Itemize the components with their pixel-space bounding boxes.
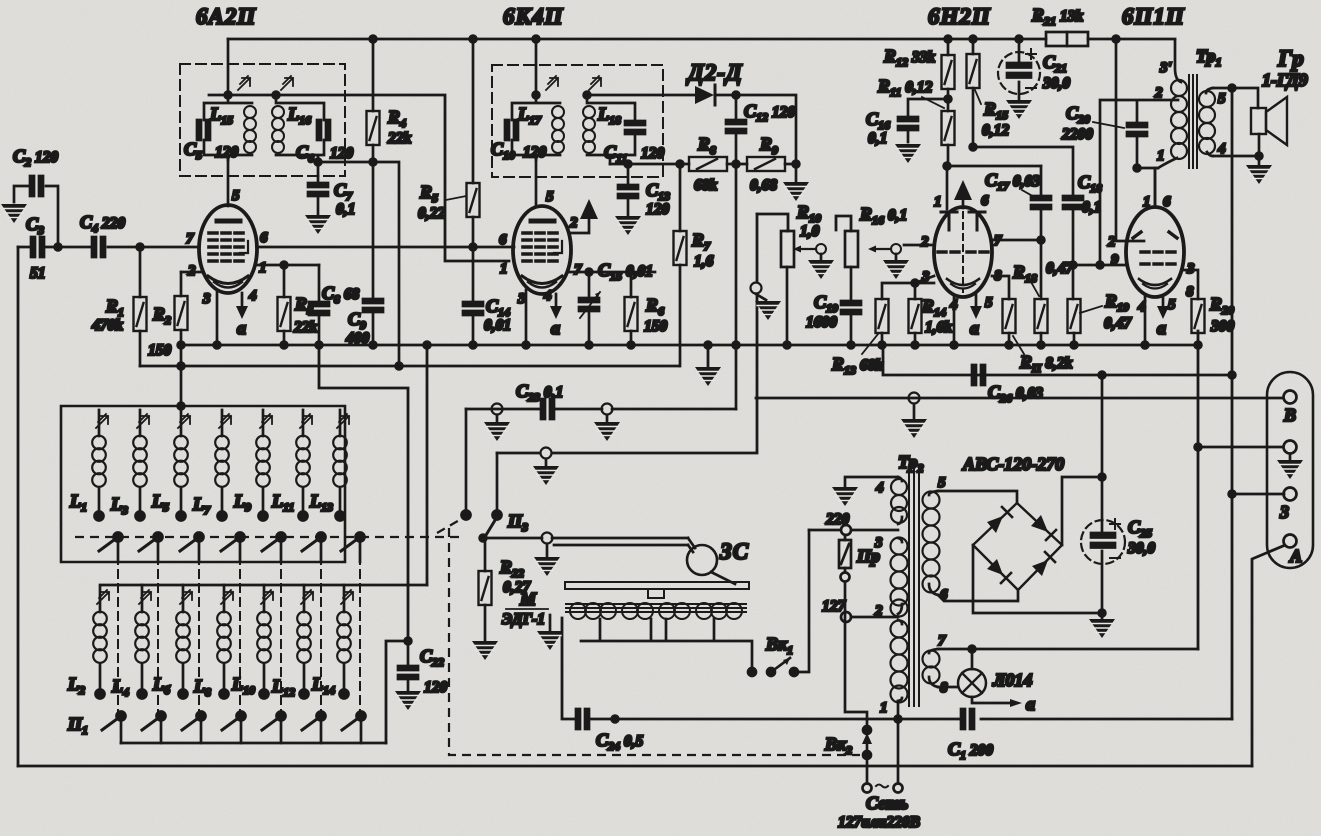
band switch P2 contact stubs <box>118 537 360 562</box>
svg-text:0,1: 0,1 <box>1082 199 1101 216</box>
power transformer Tr2 core <box>909 468 919 706</box>
chassis contact on pickup line <box>542 533 553 544</box>
ground below C25 <box>1099 610 1106 617</box>
svg-text:5: 5 <box>938 475 946 491</box>
capacitor C9 on R4 branch <box>372 162 375 345</box>
wire R16 top hook <box>836 216 851 231</box>
wire ground terminal line y447 <box>1198 446 1283 449</box>
coil L17 tank loop with C10 <box>512 95 560 160</box>
wire pin2 grid to wiper <box>904 244 934 247</box>
svg-text:ЗС: ЗС <box>719 539 749 564</box>
wire right tall vertical from Tr1 secondary <box>1231 86 1234 719</box>
wire R4 bottom line y162 <box>318 162 399 366</box>
svg-text:8: 8 <box>1186 284 1194 300</box>
capacitor C15 trimmer <box>588 272 591 345</box>
wire left grid line y247 <box>18 246 514 249</box>
wire AGC line y366 <box>140 365 679 368</box>
wire L17 to pin5 <box>535 155 538 206</box>
wire tube pin3 to bus <box>216 290 219 345</box>
svg-text:Гр: Гр <box>1277 46 1305 71</box>
svg-text:1600: 1600 <box>806 314 837 331</box>
capacitor C18 <box>1063 196 1083 209</box>
ground at R9 right <box>795 164 798 181</box>
wire heater line 7 <box>938 648 1198 651</box>
resistor R5 <box>472 39 475 247</box>
node166 line to C17 <box>947 165 1041 168</box>
resistor R17 <box>1003 299 1016 333</box>
svg-text:120: 120 <box>641 145 665 162</box>
detector line y164 <box>610 163 796 166</box>
svg-text:120: 120 <box>330 145 354 162</box>
tuning slugs above L17 L18 <box>546 76 558 90</box>
svg-text:150: 150 <box>148 342 172 359</box>
svg-text:3: 3 <box>202 291 211 307</box>
contact with ground on pickup selector line <box>541 448 552 459</box>
fuse Pr <box>844 536 847 572</box>
resistor R6 <box>630 272 633 345</box>
svg-text:а: а <box>1026 694 1035 714</box>
svg-text:R12 33k: R12 33k <box>883 46 935 69</box>
resistor R20 <box>1192 299 1205 333</box>
terminal A <box>1284 535 1297 548</box>
svg-text:6: 6 <box>499 232 507 248</box>
pilot lamp L014 <box>938 686 958 689</box>
upper coil L3 <box>110 410 149 521</box>
capacitor C3 <box>31 237 44 257</box>
heater net arrow a <box>972 697 1010 703</box>
diode D2-D <box>587 94 736 97</box>
upper coil L5 <box>151 410 190 521</box>
wire 127 tap <box>852 616 898 619</box>
wire pin3 to R20 <box>1184 270 1198 299</box>
capacitor C14 <box>472 247 475 345</box>
ground below C2 <box>1 204 27 223</box>
svg-text:150: 150 <box>644 318 668 335</box>
svg-text:6А2П: 6А2П <box>196 4 256 29</box>
resistor R14 <box>909 299 922 333</box>
svg-text:1: 1 <box>934 194 942 210</box>
wire band-switch gang dashed bus <box>75 536 462 538</box>
svg-text:а: а <box>970 318 979 338</box>
wire R15 line y147 to C18 <box>973 147 1073 197</box>
svg-text:127или220В: 127или220В <box>838 814 920 831</box>
node P3 arm to R22 and pickup line <box>483 537 688 540</box>
second pickup wire <box>554 544 688 547</box>
svg-text:1,0: 1,0 <box>800 223 820 240</box>
ground below C21 <box>1006 100 1032 119</box>
wire pin3 to R13 R14 <box>882 276 934 299</box>
resistor R1 <box>139 247 142 366</box>
wire pin6 to bridge bottom <box>938 590 1018 601</box>
capacitor C19 <box>841 301 861 314</box>
svg-text:6К4П: 6К4П <box>503 4 564 29</box>
ground below R22 <box>472 641 498 660</box>
wire mains line y719 <box>562 618 1232 719</box>
electrolytic C25 <box>1101 375 1104 613</box>
svg-text:7: 7 <box>938 633 946 649</box>
svg-text:3: 3 <box>1279 502 1289 522</box>
capacitor C20 <box>1100 100 1178 265</box>
svg-text:68k: 68k <box>694 177 718 194</box>
wire tube pin1 line <box>255 265 319 297</box>
wire pin4 to ground <box>845 477 898 486</box>
wire oscillator top line y95 <box>209 95 509 261</box>
wire pin3 to bus <box>525 290 528 345</box>
svg-text:ЭДГ-1: ЭДГ-1 <box>502 611 545 628</box>
oscillator dashed box <box>180 64 345 176</box>
resistor R8 <box>689 157 727 171</box>
wire top B+ bus <box>228 38 1175 41</box>
svg-text:R16 0,1: R16 0,1 <box>859 204 907 227</box>
svg-text:3': 3' <box>1159 60 1172 76</box>
lower coil L14 <box>311 585 353 699</box>
wire y388 link <box>319 345 408 641</box>
wire gang dashed link to P3 and Vk2 <box>449 528 860 755</box>
svg-text:30,0: 30,0 <box>1127 540 1155 557</box>
svg-text:0,22: 0,22 <box>418 205 445 222</box>
node junction dots right vertical <box>1229 372 1236 379</box>
svg-text:0,47: 0,47 <box>1104 315 1132 332</box>
wire pin5 to bridge top <box>938 491 1017 503</box>
svg-text:RП 8,2k: RП 8,2k <box>1019 352 1073 375</box>
svg-text:1: 1 <box>1143 194 1151 210</box>
wire C23 line <box>466 408 736 411</box>
wire right outer vertical to terminal A <box>1252 546 1283 766</box>
heater arrow a of 6A2P <box>241 293 244 306</box>
svg-text:300: 300 <box>1210 318 1235 335</box>
svg-text:4: 4 <box>543 288 552 304</box>
wire P1 bus <box>121 742 386 745</box>
wire from bus to L15 <box>227 39 230 95</box>
wire pin2 with supply arrow <box>571 219 589 233</box>
supply arrow at pin6 <box>962 200 965 208</box>
contact with ground on C23 line right <box>602 404 613 415</box>
wire pin8 to R17 <box>992 276 1009 299</box>
svg-text:а: а <box>237 318 246 338</box>
svg-text:C15 0,01: C15 0,01 <box>598 260 653 283</box>
terminal 3 <box>1284 488 1297 501</box>
wire gang dashed diagonal <box>437 518 463 533</box>
svg-text:220: 220 <box>825 511 850 528</box>
wire pin9 line <box>1073 264 1127 267</box>
svg-text:4: 4 <box>1217 141 1226 157</box>
coil box frame <box>61 406 345 562</box>
loudspeaker Gr 1-GD9 <box>1251 108 1266 134</box>
resistor R21 on bus <box>1046 32 1088 46</box>
resistor R18 <box>1040 240 1043 299</box>
svg-text:C8 68: C8 68 <box>322 283 360 306</box>
lower coil L6 <box>152 585 192 699</box>
resistor R2 <box>180 272 183 406</box>
wire pin4 to bus <box>953 296 956 345</box>
resistor R12 <box>947 39 950 55</box>
Tr1 primary <box>1175 40 1181 82</box>
wire C26 feedback line y375 <box>883 345 1232 375</box>
bridge diodes <box>987 515 1048 576</box>
ground below C13 <box>615 216 641 235</box>
turntable platter <box>565 582 749 589</box>
resistor R13 <box>876 299 889 333</box>
upper coil L7 <box>192 410 231 521</box>
heater arrow a of 6K4P <box>555 294 558 306</box>
svg-text:5: 5 <box>232 188 240 204</box>
lower coil L12 <box>271 585 313 699</box>
svg-text:АВС-120-270: АВС-120-270 <box>962 454 1064 474</box>
wire R20 lower vertical <box>1197 331 1200 649</box>
upper coil L11 <box>271 410 312 521</box>
resistor R19 <box>1068 299 1081 333</box>
switch Vk2 <box>863 726 871 734</box>
wire tube pin2 to R2 <box>181 271 201 274</box>
heater arrow a of 6P1P <box>1162 296 1165 306</box>
ground below C7 <box>305 215 331 234</box>
terminal ground <box>1284 441 1297 454</box>
wire volume feed y214 <box>757 214 788 231</box>
svg-text:1: 1 <box>259 260 267 276</box>
svg-text:В: В <box>1283 405 1296 425</box>
wire main cathode bus <box>181 344 1198 347</box>
resistor R22 <box>484 538 487 640</box>
potentiometer R10 <box>786 230 789 233</box>
upper coil L1 <box>69 410 108 521</box>
svg-text:7: 7 <box>574 262 582 278</box>
svg-text:400: 400 <box>345 330 370 347</box>
svg-text:5: 5 <box>1218 91 1226 107</box>
svg-text:C12 120: C12 120 <box>744 101 795 124</box>
svg-text:5: 5 <box>1168 297 1176 313</box>
svg-text:Сеть: Сеть <box>866 793 908 813</box>
svg-text:1,6k: 1,6k <box>925 319 952 336</box>
lower coil bus <box>102 584 427 587</box>
upper coil L13 <box>309 410 349 521</box>
svg-text:1: 1 <box>880 700 888 716</box>
svg-text:6: 6 <box>1163 194 1171 210</box>
svg-text:127: 127 <box>822 598 847 615</box>
lower coil L8 <box>193 585 233 699</box>
tube 6P1P <box>1126 207 1184 297</box>
wire pin1 to node166 <box>946 166 949 209</box>
wire tube pin5 <box>227 155 230 206</box>
wire pin2 screen from bus <box>1116 39 1144 241</box>
lower coil L4 <box>111 585 151 699</box>
svg-text:6: 6 <box>981 193 989 209</box>
svg-text:120: 120 <box>215 144 239 161</box>
svg-text:Пр: Пр <box>856 546 880 566</box>
svg-text:C17 0,03: C17 0,03 <box>985 170 1040 193</box>
svg-text:9: 9 <box>1111 252 1119 268</box>
terminal V <box>1284 391 1297 404</box>
svg-text:R21 13k: R21 13k <box>1031 5 1083 28</box>
lower coil L10 <box>231 585 273 699</box>
svg-text:Д2-Д: Д2-Д <box>686 60 743 85</box>
svg-text:470k: 470k <box>91 317 123 334</box>
chassis contact on x756 riser <box>751 283 762 294</box>
svg-text:6: 6 <box>260 230 268 246</box>
svg-text:C26 0,03: C26 0,03 <box>988 382 1043 405</box>
resistor R3 <box>283 331 286 345</box>
capacitor C26 on feedback line <box>972 365 985 385</box>
capacitor C2 <box>14 186 58 247</box>
svg-text:120: 120 <box>646 201 670 218</box>
pickup ZS <box>687 545 717 575</box>
svg-text:6П1П: 6П1П <box>1122 4 1185 29</box>
capacitor C22 <box>407 641 410 690</box>
wire bridge plus to C25 <box>1062 477 1102 545</box>
electrolytic C21 <box>998 52 1040 94</box>
capacitor C7 <box>317 176 320 214</box>
capacitor C8 <box>318 265 321 345</box>
capacitor C12 <box>735 95 738 409</box>
svg-text:R13 68k: R13 68k <box>831 354 883 377</box>
svg-text:C2 120: C2 120 <box>13 146 58 169</box>
resistor R4 <box>372 39 375 162</box>
wire from bus down to L17 <box>535 39 538 95</box>
svg-text:0,12: 0,12 <box>982 122 1009 139</box>
svg-text:0,68: 0,68 <box>750 177 777 194</box>
wire B terminal line y398 <box>756 397 1283 400</box>
terminal strip outline <box>1267 372 1313 568</box>
switch Vk1 <box>748 668 756 676</box>
wire P3 contact risers <box>466 409 497 515</box>
capacitor C23 <box>541 399 554 419</box>
wire pin1 plate from Tr1 <box>1154 168 1157 207</box>
wire pin7 to C17 <box>992 239 1041 242</box>
svg-text:51: 51 <box>30 265 46 282</box>
svg-text:C1 200: C1 200 <box>948 739 993 762</box>
coil L16 tank loop with C6 <box>276 95 324 176</box>
wire diode to corner down <box>736 95 796 164</box>
Tr2 heater winding 7-8 <box>929 649 938 653</box>
svg-text:5: 5 <box>985 295 993 311</box>
svg-text:4: 4 <box>875 480 884 496</box>
capacitor C4 <box>92 237 105 257</box>
svg-text:0,1: 0,1 <box>868 130 887 147</box>
motor taps to Vk1 <box>581 619 752 672</box>
svg-text:1: 1 <box>1157 148 1165 164</box>
Tr2 secondary HV 5-6 <box>929 491 938 495</box>
ground at motor left <box>549 615 552 630</box>
heater arrow a of 6N2P <box>975 295 978 306</box>
tube 6N2P double triode <box>934 207 992 297</box>
resistor R15 <box>972 39 975 54</box>
svg-text:R11 0,12: R11 0,12 <box>877 76 933 99</box>
wire pin7 cathode line <box>569 271 655 274</box>
wire y641 to P1 bus riser <box>386 641 408 743</box>
svg-text:4: 4 <box>248 288 257 304</box>
svg-text:2200: 2200 <box>1061 126 1093 143</box>
svg-text:Л014: Л014 <box>992 670 1032 690</box>
svg-text:2: 2 <box>1154 85 1163 101</box>
contact with ground on C23 line left <box>492 404 503 415</box>
wire terminal 3 link <box>1232 493 1284 496</box>
svg-text:а: а <box>551 318 560 338</box>
svg-text:2: 2 <box>920 234 929 250</box>
lower coil L2 <box>67 585 109 699</box>
Tr2 winding 2-1 <box>898 620 902 624</box>
mains plug <box>863 784 872 793</box>
resistor R7 <box>679 164 682 366</box>
svg-text:C23 0,1: C23 0,1 <box>516 381 563 404</box>
svg-text:А: А <box>1289 546 1302 566</box>
svg-text:0,01: 0,01 <box>484 317 511 334</box>
coil L15 tank loop with C5 <box>204 95 252 160</box>
resistor R11 <box>942 111 955 145</box>
tuning slugs above L15 L16 <box>238 76 250 90</box>
tube 6A2P <box>199 205 257 293</box>
wire 220 tap <box>809 529 898 532</box>
IF transformer dashed box <box>492 65 663 177</box>
wire bridge minus to ground node <box>973 545 1102 613</box>
ground below C22 <box>395 691 421 710</box>
resistor R9 <box>747 157 785 171</box>
Tr2 winding 3-2 <box>898 538 902 542</box>
potentiometer R16 <box>845 231 858 267</box>
upper coil L9 <box>233 410 272 521</box>
wire outer bottom <box>18 765 1252 768</box>
svg-text:1,6: 1,6 <box>694 253 714 270</box>
R10 wiper with chassis <box>793 244 826 254</box>
Tr1 secondary <box>1206 88 1213 93</box>
capacitor C16 <box>908 99 948 142</box>
capacitor C1 <box>961 709 974 729</box>
band switch P1 contacts row <box>102 712 366 744</box>
switch P3 <box>462 511 471 520</box>
svg-text:120: 120 <box>424 679 448 696</box>
capacitor C24 <box>576 709 589 729</box>
svg-text:22k: 22k <box>387 130 412 147</box>
wire lower coil bus riser <box>426 345 429 585</box>
svg-text:6Н2П: 6Н2П <box>928 4 991 29</box>
wire chassis-switch vertical x756 <box>497 214 757 453</box>
band switch P2 contacts row <box>99 533 365 552</box>
svg-text:22k: 22k <box>293 319 318 336</box>
wire pin4 to bus <box>1144 297 1147 345</box>
Tr2 primary winding 4-3 <box>898 477 902 481</box>
ground below C16 <box>895 144 921 163</box>
svg-text:1: 1 <box>500 261 508 277</box>
svg-text:а: а <box>1157 318 1166 338</box>
capacitor C17 <box>1040 166 1043 240</box>
svg-text:2: 2 <box>569 215 578 231</box>
svg-text:C24 0,5: C24 0,5 <box>596 730 644 753</box>
svg-text:1-ГД9: 1-ГД9 <box>1262 70 1308 90</box>
svg-text:5: 5 <box>546 189 554 205</box>
wire fuse to Vk2 <box>845 582 867 730</box>
coil L18 tank loop with C11 <box>587 95 635 164</box>
ground below bus x708 <box>707 346 710 366</box>
svg-text:30,0: 30,0 <box>1042 75 1070 92</box>
wire left outer vertical <box>17 247 20 766</box>
svg-text:C4 220: C4 220 <box>80 212 125 235</box>
svg-text:М: М <box>519 589 537 609</box>
motor M EDG-1 winding <box>566 603 746 619</box>
tube 6K4P <box>513 206 571 294</box>
svg-text:0,1: 0,1 <box>336 201 355 218</box>
svg-text:7: 7 <box>186 231 194 247</box>
gang dashed verticals <box>118 542 360 712</box>
chassis contact on B line <box>909 393 920 404</box>
wire pin1 down <box>897 701 900 783</box>
R16 wiper with chassis <box>868 244 901 254</box>
capacitor C13 <box>627 164 630 215</box>
